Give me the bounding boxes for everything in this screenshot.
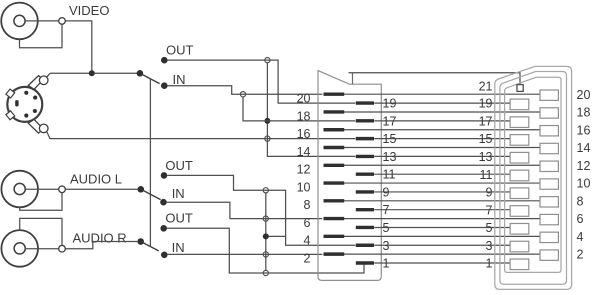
P1 pin 8 contact bar [324,199,345,202]
P1 pin 15 contact bar [356,137,374,140]
junction audio tap stub [263,233,269,239]
P1 pin 21 shield tab [352,73,354,84]
wire pin 19 to socket face [374,102,510,104]
wire pin 9 to socket face [374,191,510,193]
socket pin 12 hole [540,161,558,171]
P1 pin 7 contact bar [356,208,374,211]
switch S1 IN contact [161,82,168,89]
wire pin 17 to socket face [374,120,510,122]
wire J3 tip to terminal [25,188,58,190]
svg-text:16: 16 [577,123,591,137]
J2 shield notch lower-left [6,111,15,120]
svg-text:15: 15 [383,132,397,146]
socket pin 20 hole [540,90,558,100]
crossover circle on S1 IN wire [240,92,245,97]
crossover circle on S1 OUT wire [265,58,270,63]
wire pin 12 to socket face [344,164,540,166]
svg-text:8: 8 [577,194,584,208]
svg-text:10: 10 [577,177,591,191]
SCART socket face outer outline [495,66,572,289]
wire audio tap vertical [265,193,267,271]
wire pin 7 to socket face [374,209,510,211]
svg-text:7: 7 [383,203,390,217]
wire pin 11 to socket face [374,173,510,175]
RCA jack J4 center pin [14,243,25,254]
junction video bus [89,70,95,76]
svg-text:20: 20 [297,92,311,106]
svg-text:6: 6 [304,216,311,230]
socket pin 13 hole [510,152,529,163]
wire S1 IN to pin 20 [168,86,323,95]
socket pin 6 hole [540,214,558,224]
switch S2 OUT contact [161,172,168,179]
svg-text:18: 18 [297,109,311,123]
svg-text:3: 3 [383,239,390,253]
svg-text:11: 11 [383,168,396,182]
wire switch bus vertical S1 to S3 [149,78,151,246]
svg-text:15: 15 [479,132,493,146]
wire J4 terminal to switch S3 common [65,242,137,249]
wire pin 2 to socket face [344,253,540,255]
svg-text:19: 19 [383,97,397,111]
svg-text:11: 11 [480,168,493,182]
crossover circle on pin 15 wire [265,136,270,141]
svg-text:OUT: OUT [165,158,193,173]
switch S3 OUT contact [160,225,167,232]
P1 pin 11 contact bar [356,172,374,175]
P1 pin 20 contact bar [324,92,345,95]
socket pin 11 hole [510,170,529,181]
J2 key slot [15,100,18,106]
switch S3 lever [143,243,159,251]
P1 pin 6 contact bar [324,217,345,220]
svg-text:1: 1 [486,257,493,271]
RCA jack J1 VIDEO outer shell [1,3,38,40]
socket pin 3 hole [510,241,529,252]
junction video tap and pin 17 wire [264,118,270,124]
svg-text:2: 2 [304,251,311,265]
socket pin 4 hole [540,232,558,242]
S-Video mini-DIN connector J2 body [7,87,42,122]
crossover circle on S2 OUT wire [263,188,268,193]
wire pin 3 to socket face [374,244,510,246]
svg-text:IN: IN [172,186,185,201]
svg-text:14: 14 [297,145,311,159]
svg-text:12: 12 [577,159,591,173]
wire pin 6 to socket face [344,218,540,220]
J2 upper solder lug [28,76,43,90]
wire J4 shell ground loop [20,218,62,245]
wire J1 shell ground loop [20,24,63,48]
socket pin 19 hole [510,99,529,110]
P1 pin 4 contact bar [324,235,345,238]
RCA jack J4 AUDIO R outer shell [1,230,38,267]
svg-text:13: 13 [383,150,397,164]
svg-text:IN: IN [172,240,185,255]
switch S2 lever [143,190,161,199]
wire video out tap vertical to pin 13 [267,63,355,157]
crossover circle on pin1 route [263,270,268,275]
P1 pin 14 contact bar [324,146,345,149]
svg-text:5: 5 [486,221,493,235]
svg-text:3: 3 [486,239,493,253]
wire pin 10 to socket face [344,182,540,184]
P1 pin 10 contact bar [324,181,345,184]
socket pin 21 hole [517,85,523,92]
wire pin 20 to socket face [344,93,540,95]
wire S2 IN to pin 6 [167,202,322,218]
wire pin 5 to socket face [374,226,510,228]
wire S3 IN to pin 2 [168,253,323,255]
wire pin 8 to socket face [344,200,540,202]
wire pin 15 to socket face [374,138,510,140]
P1 pin 18 contact bar [324,110,345,113]
svg-text:17: 17 [479,114,493,128]
wire audio tap stub [266,235,286,237]
J2 pin 1 [24,91,28,95]
svg-text:14: 14 [577,141,591,155]
wire pin 21 to socket face [349,73,521,85]
svg-text:19: 19 [479,97,493,111]
wire J1 terminal to video bus [65,21,92,73]
crossover circle on S3 IN wire [263,252,268,257]
P1 pin 16 contact bar [324,128,345,131]
svg-text:VIDEO: VIDEO [69,3,109,18]
switch S2 common contact [138,186,145,193]
svg-text:OUT: OUT [166,42,194,57]
socket pin 7 hole [510,206,529,217]
wire J4 tip to terminal [25,248,58,250]
svg-text:2: 2 [577,248,584,262]
wire J2 chroma to pin 15 [47,132,355,139]
svg-text:13: 13 [479,150,493,164]
socket pin 1 hole [510,259,529,270]
wire J1 tip to terminal [25,20,59,22]
svg-text:12: 12 [297,163,311,177]
P1 pin 17 contact bar [356,119,374,122]
svg-text:AUDIO R: AUDIO R [73,231,127,246]
SCART socket face inner outline [500,72,567,285]
P1 pin 1 contact bar [356,261,374,264]
wire pin 16 to socket face [344,129,540,131]
wire S1 IN branch to pin 17 [243,97,355,121]
J2 pin 3 [24,114,28,118]
terminal of J1 (open circle) [59,18,66,25]
svg-text:4: 4 [577,230,584,244]
wire J3 shell ground loop [20,193,62,211]
J2 lower solder lug [28,119,43,133]
svg-text:9: 9 [486,186,493,200]
socket pin 15 hole [510,135,529,146]
svg-text:10: 10 [297,180,311,194]
svg-text:6: 6 [577,212,584,226]
J2 pin 2 [33,96,37,100]
terminal of J3 (open circle) [59,186,66,193]
svg-text:1: 1 [383,257,390,271]
svg-text:8: 8 [304,198,311,212]
svg-text:5: 5 [383,221,390,235]
J2 pin 4 [33,109,37,113]
svg-text:17: 17 [383,114,397,128]
socket pin 16 hole [540,126,558,136]
wire S1 OUT to pin 19 [168,60,356,103]
socket pin 5 hole [510,223,529,234]
socket pin 9 hole [510,188,529,199]
RCA jack J1 VIDEO center pin [14,15,25,26]
terminal upper of J2 [39,76,48,85]
svg-text:18: 18 [577,106,591,120]
socket pin 18 hole [540,108,558,118]
terminal lower of J2 [39,124,48,133]
switch S1 OUT contact [161,57,168,64]
svg-text:7: 7 [486,203,493,217]
P1 pin 5 contact bar [356,226,374,229]
svg-text:OUT: OUT [165,210,193,225]
P1 pin 9 contact bar [356,190,374,193]
svg-text:21: 21 [479,79,493,93]
SCART socket pin area outline [505,77,561,272]
wire pin 14 to socket face [344,147,540,149]
wire J2 luma to video bus [47,73,137,77]
socket pin 10 hole [540,179,558,189]
socket pin 17 hole [510,117,529,128]
P1 pin 12 contact bar [324,164,345,167]
socket pin 8 hole [540,197,558,207]
wire pin 4 to socket face [344,235,540,237]
wire J3 terminal to switch S2 common [65,188,137,190]
crossover circle on S2 IN wire [263,216,268,221]
svg-text:AUDIO L: AUDIO L [70,171,122,186]
P1 pin 2 contact bar [324,252,345,255]
socket pin 2 hole [540,250,558,260]
svg-text:20: 20 [577,88,591,102]
RCA jack J3 center pin [14,183,25,194]
svg-text:9: 9 [383,185,390,199]
SCART plug P1 body outline [318,71,381,281]
wire S2 OUT to pin 3 [167,175,355,245]
svg-text:IN: IN [173,72,186,87]
P1 pin 3 contact bar [356,244,374,247]
wire pin 13 to socket face [374,155,510,157]
terminal of J4 (open circle) [59,245,66,252]
switch S3 IN contact [161,252,168,259]
wire S3 OUT to pin 1 [167,228,364,273]
svg-text:16: 16 [297,127,311,141]
switch S1 common contact [137,70,144,77]
wire pin 1 to socket face [374,262,510,264]
P1 pin 19 contact bar [356,101,374,104]
RCA jack J3 AUDIO L outer shell [1,171,38,208]
J2 shield notch upper-left [6,89,15,98]
switch S3 common contact [137,238,144,245]
socket pin 14 hole [540,143,558,153]
svg-text:4: 4 [304,234,311,248]
switch S2 IN contact [160,199,167,206]
P1 pin 13 contact bar [356,155,374,158]
wire pin 18 to socket face [344,111,540,113]
switch S1 lever [142,74,160,83]
